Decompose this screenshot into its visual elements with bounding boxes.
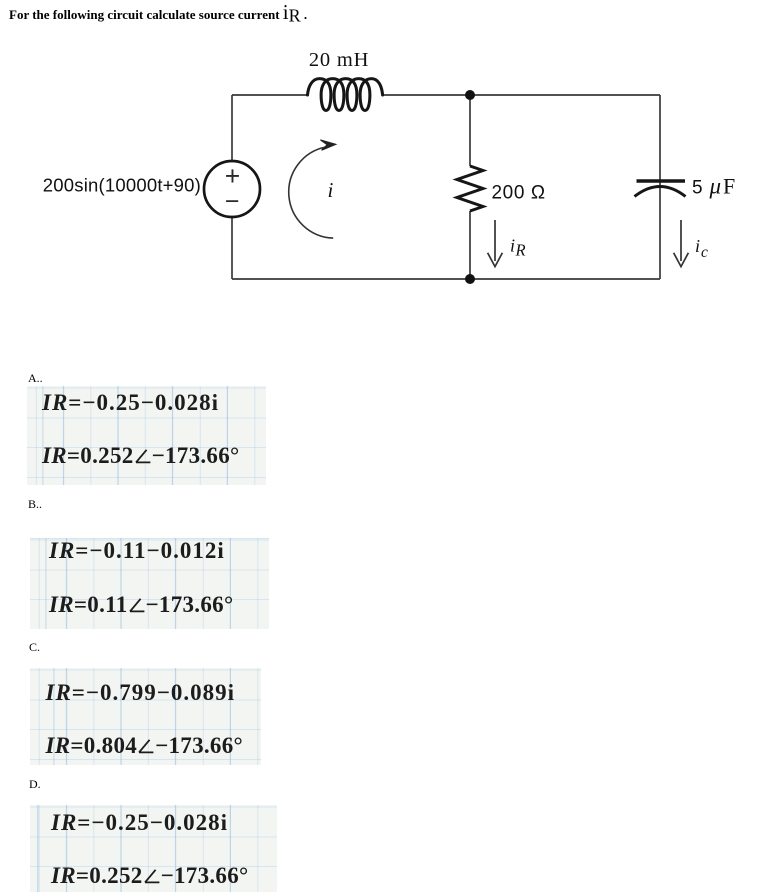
title: [9, 0, 307, 27]
loop current arrow i: [289, 140, 336, 238]
wire capacitor branch: [659, 95, 661, 279]
wire bottom: [232, 278, 660, 280]
choice B label: [28, 497, 42, 512]
wire resistor branch upper: [469, 95, 471, 166]
current arrow iR: [488, 220, 503, 267]
current arrow ic: [674, 220, 689, 267]
wire top-right (inductor to node A and capacitor): [383, 94, 660, 96]
choice D label: [29, 777, 41, 792]
svg-text:ic: ic: [695, 236, 708, 261]
svg-text:−: −: [225, 188, 240, 216]
wire left lower (source bottom lead): [231, 217, 233, 279]
choice B block: [30, 538, 269, 629]
svg-text:iR: iR: [510, 236, 526, 260]
resistor R 200 ohm: [457, 166, 483, 211]
svg-text:20 mH: 20 mH: [309, 49, 369, 71]
inductor L 20 mH: [308, 79, 383, 111]
svg-text:+: +: [225, 161, 240, 191]
wire resistor branch lower: [469, 211, 471, 279]
choice A block: [27, 386, 267, 485]
node A (top junction): [465, 90, 475, 100]
choice D block: [30, 805, 277, 892]
choice C label: [29, 640, 40, 655]
svg-text:5 μF: 5 μF: [692, 174, 735, 199]
node B (bottom junction): [465, 274, 475, 284]
choice C block: [30, 668, 261, 765]
voltage source VS 200sin(10000t+90): [204, 161, 260, 217]
capacitor C 5 uF: [635, 181, 686, 197]
svg-text:200 Ω: 200 Ω: [492, 183, 546, 204]
svg-text:i: i: [328, 178, 334, 202]
wire top-left (source to inductor): [232, 94, 308, 96]
choice A label: [28, 371, 43, 386]
wire left upper (source top lead): [231, 95, 233, 161]
svg-text:200sin(10000t+90): 200sin(10000t+90): [43, 175, 201, 196]
circuit schematic: [0, 40, 768, 310]
